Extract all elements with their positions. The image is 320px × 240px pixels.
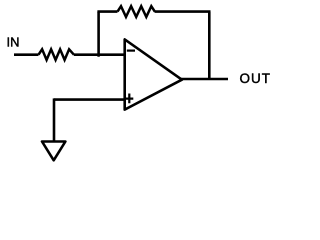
op-amp plus pin mark (125, 94, 133, 104)
svg-text:OUT: OUT (240, 71, 272, 86)
wire junction vertical up to feedback (97, 12, 100, 56)
op-amp minus pin mark (127, 49, 135, 51)
wire R2 to top-right corner (155, 10, 211, 13)
wire non-inverting vertical down (53, 98, 56, 140)
resistor R1 (input) (39, 49, 74, 60)
svg-text:IN: IN (7, 34, 20, 49)
node junction (input node) (97, 54, 100, 57)
wire R1 to op-amp inverting input (74, 53, 125, 56)
wire output to OUT (181, 78, 228, 81)
op-amp U1 (125, 39, 182, 109)
wire top-right vertical down to output (208, 12, 211, 79)
ground (42, 142, 65, 161)
wire non-inverting input horizontal (54, 98, 125, 101)
wire top-left horizontal to resistor R2 (97, 10, 117, 13)
wire IN to resistor R1 (14, 53, 39, 56)
resistor R2 (feedback) (118, 6, 155, 17)
